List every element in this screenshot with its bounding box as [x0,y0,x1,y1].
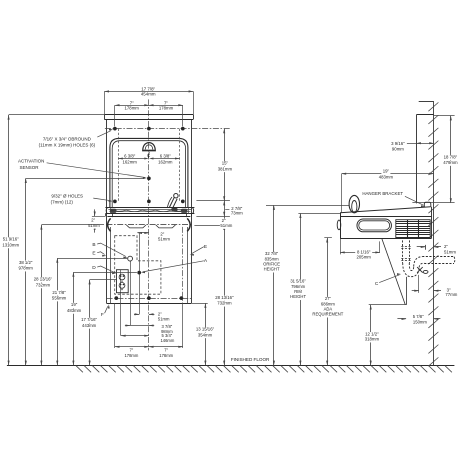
svg-text:978mm: 978mm [19,266,34,271]
svg-text:38 1/2": 38 1/2" [19,260,33,265]
svg-text:HEIGHT: HEIGHT [264,267,280,272]
svg-text:13 15/16": 13 15/16" [196,327,215,332]
svg-text:162mm: 162mm [158,159,173,164]
svg-text:E: E [92,251,95,257]
svg-text:B: B [92,242,95,248]
svg-text:443mm: 443mm [82,323,97,328]
svg-text:483mm: 483mm [379,174,394,179]
svg-text:19": 19" [383,168,390,173]
svg-text:51mm: 51mm [158,236,170,241]
svg-text:17 7/16": 17 7/16" [81,317,97,322]
svg-text:9/32" Ø HOLES: 9/32" Ø HOLES [51,193,83,198]
svg-text:7/16" X 3/4" OBROUND: 7/16" X 3/4" OBROUND [43,136,92,141]
svg-text:454mm: 454mm [141,92,156,97]
svg-text:28 13/16": 28 13/16" [34,277,53,282]
svg-text:178mm: 178mm [124,353,138,358]
svg-text:(7mm) (12): (7mm) (12) [51,199,74,204]
svg-text:150mm: 150mm [413,320,427,325]
svg-text:73mm: 73mm [231,211,243,216]
svg-text:28 13/16": 28 13/16" [215,295,234,300]
svg-text:483mm: 483mm [67,308,82,313]
svg-text:ACTIVATION: ACTIVATION [18,159,44,164]
svg-text:7": 7" [164,348,168,353]
svg-text:C: C [375,281,379,287]
svg-text:178mm: 178mm [159,353,173,358]
svg-text:F: F [101,312,104,318]
svg-text:178mm: 178mm [125,106,140,111]
svg-text:HEIGHT: HEIGHT [290,294,306,299]
svg-text:178mm: 178mm [159,106,174,111]
svg-text:17 7/8": 17 7/8" [141,86,155,91]
svg-text:FINISHED FLOOR: FINISHED FLOOR [231,357,270,362]
svg-text:51 9/16": 51 9/16" [3,237,19,242]
svg-text:6 3/8": 6 3/8" [160,153,172,158]
svg-text:51mm: 51mm [220,223,232,228]
svg-text:318mm: 318mm [365,337,380,342]
svg-text:354mm: 354mm [198,332,213,337]
svg-text:REQUIREMENT: REQUIREMENT [312,312,343,317]
svg-text:HANGER BRACKET: HANGER BRACKET [362,191,403,196]
svg-text:3 9/16": 3 9/16" [391,141,405,146]
svg-text:51mm: 51mm [88,223,100,228]
svg-text:90mm: 90mm [392,147,404,152]
svg-text:7": 7" [130,348,134,353]
svg-text:19": 19" [71,302,78,307]
svg-text:2": 2" [158,311,162,316]
svg-text:15": 15" [222,161,229,166]
svg-text:6 3/8": 6 3/8" [124,153,136,158]
svg-text:18 7/8": 18 7/8" [444,154,458,159]
svg-text:5 7/8": 5 7/8" [413,314,424,319]
svg-text:556mm: 556mm [52,296,67,301]
svg-text:D: D [92,265,96,271]
svg-text:SENSOR: SENSOR [19,165,39,170]
svg-text:205mm: 205mm [357,255,372,260]
svg-text:146mm: 146mm [160,338,174,343]
svg-text:21 7/8": 21 7/8" [52,290,66,295]
svg-text:381mm: 381mm [218,166,233,171]
svg-text:732mm: 732mm [217,301,232,306]
svg-text:1310mm: 1310mm [2,242,19,247]
svg-text:E: E [204,244,207,250]
svg-text:479mm: 479mm [443,160,458,165]
svg-text:77mm: 77mm [445,292,457,297]
svg-text:51mm: 51mm [158,317,170,322]
svg-text:732mm: 732mm [36,282,51,287]
svg-text:51mm: 51mm [444,249,456,254]
svg-text:162mm: 162mm [123,159,138,164]
svg-text:(11mm X 19mm) HOLES (6): (11mm X 19mm) HOLES (6) [39,143,96,148]
